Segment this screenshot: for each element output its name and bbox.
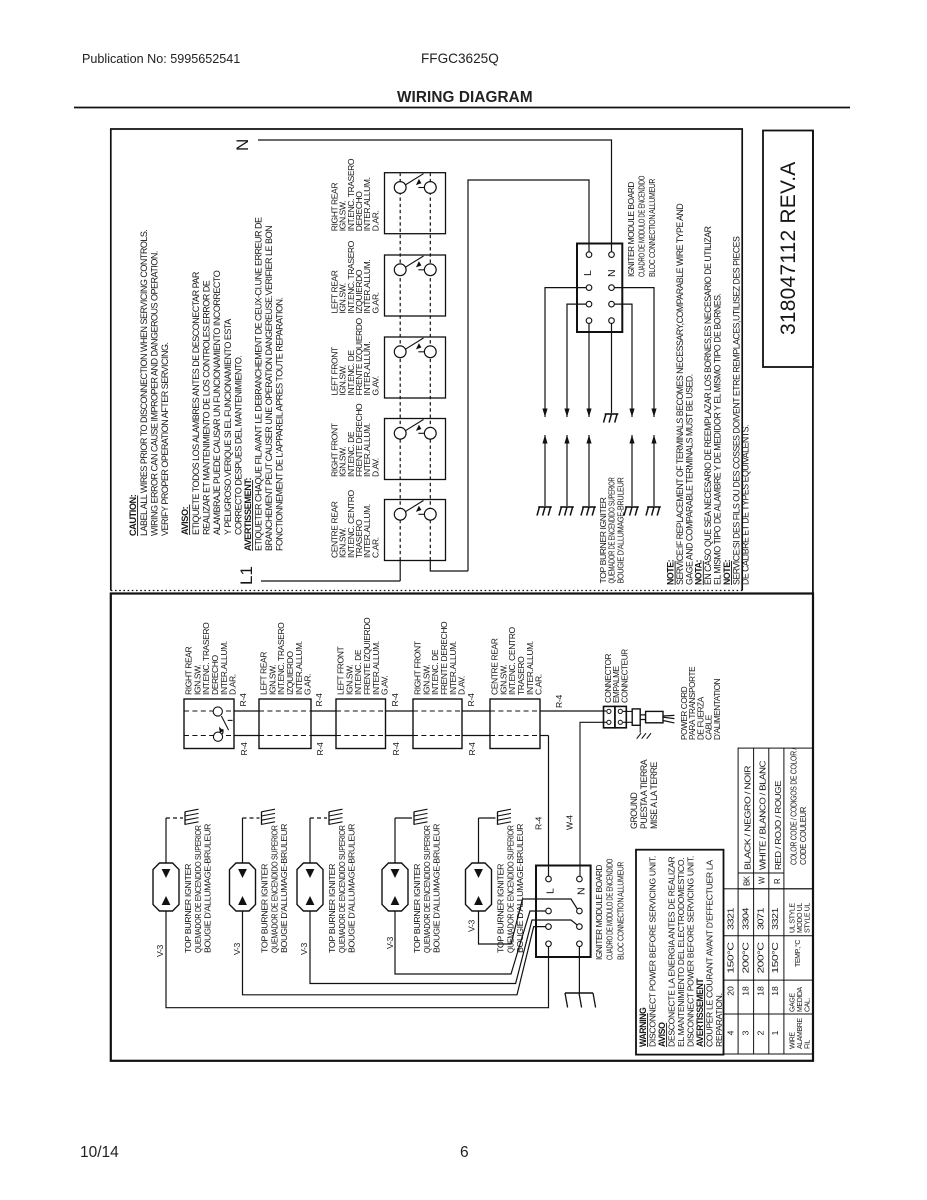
svg-text:WARNING: WARNING — [638, 1007, 648, 1047]
wire: board output 6 (direct to igniter) — [611, 323, 613, 413]
avertissement note (FR) — [243, 217, 285, 551]
ignition switch box (top chain): LEFT REAR — [385, 255, 446, 316]
wire: board output 2 — [567, 304, 586, 417]
svg-text:L: L — [582, 270, 594, 276]
top burner igniter electrode — [560, 506, 574, 508]
svg-text:GAGE AND COMPARABLE TERMINALS: GAGE AND COMPARABLE TERMINALS MUST BE US… — [684, 374, 694, 585]
label top burner igniter 4 — [413, 823, 441, 953]
label top burner igniter 1 — [184, 823, 212, 953]
caution note (EN) — [128, 230, 170, 536]
ignition switch box (bottom chain): RIGHT REAR — [184, 699, 234, 749]
svg-text:REPARATION.: REPARATION. — [714, 993, 724, 1047]
svg-text:318047112 REV.A: 318047112 REV.A — [777, 162, 800, 335]
warning box — [636, 850, 724, 1055]
svg-text:REALIZAR ET MANTENIMIENTO DE L: REALIZAR ET MANTENIMIENTO DE LOS CONTROL… — [202, 280, 212, 535]
top burner igniter 4 (spark module output) — [382, 863, 408, 911]
page footer date — [80, 1144, 119, 1162]
svg-text:G.AV.: G.AV. — [370, 376, 380, 395]
top burner igniter electrode — [582, 506, 596, 508]
label LEFT FRONT (top chain) — [330, 318, 381, 396]
svg-text:C.AR.: C.AR. — [370, 537, 380, 558]
wire: ignition switch bus B (bottom chain) — [184, 736, 549, 877]
wire continuation to igniter at v=479 — [588, 435, 590, 506]
svg-text:TOP BURNER IGNITER: TOP BURNER IGNITER — [497, 863, 506, 953]
svg-text:QUEMADOR DE ENCENDIDO SUPERIOR: QUEMADOR DE ENCENDIDO SUPERIOR — [423, 825, 432, 953]
svg-text:TOP BURNER IGNITER: TOP BURNER IGNITER — [261, 863, 270, 953]
top section frame (dotted left edge) — [111, 129, 742, 591]
svg-text:R-4: R-4 — [390, 693, 400, 706]
svg-text:18: 18 — [740, 986, 750, 996]
svg-text:QUEMADOR DE ENCENDIDO SUPERIOR: QUEMADOR DE ENCENDIDO SUPERIOR — [194, 825, 203, 953]
ignition switch box (top chain): LEFT FRONT — [385, 337, 446, 398]
svg-text:G.AR.: G.AR. — [303, 674, 313, 695]
wire: board output 1 — [545, 288, 586, 417]
wire igniter 2 return — [243, 911, 546, 995]
svg-text:D.AV.: D.AV. — [457, 676, 467, 695]
power cord plug body — [632, 709, 640, 725]
wire continuation to igniter at v=435 — [544, 435, 546, 506]
label RIGHT FRONT (top chain) — [330, 403, 381, 477]
svg-text:CUADRO DE MODULO DE ENCENDIDO: CUADRO DE MODULO DE ENCENDIDO — [636, 175, 646, 277]
switch contacts in first bottom box — [213, 707, 222, 716]
svg-text:R-4: R-4 — [239, 742, 249, 755]
wire continuation to igniter at v=457 — [566, 435, 568, 506]
svg-text:BOUGIE D'ALLUMAGE-BRULEUR: BOUGIE D'ALLUMAGE-BRULEUR — [516, 823, 525, 953]
page footer page number — [460, 1144, 469, 1162]
wire igniter 1 to electrode — [165, 818, 167, 863]
svg-text:2: 2 — [755, 1030, 765, 1035]
svg-text:G.AR.: G.AR. — [370, 292, 380, 313]
svg-text:DESCONECTE LA ENERGIA ANTES DE: DESCONECTE LA ENERGIA ANTES DE REALIZAR — [667, 857, 677, 1047]
label LEFT FRONT (bottom chain) — [336, 617, 390, 695]
svg-text:MEDIDA: MEDIDA — [797, 986, 804, 1012]
wire: bus to igniter board L input — [468, 180, 589, 571]
svg-text:R-4: R-4 — [238, 693, 248, 706]
ignition switch box (bottom chain): RIGHT FRONT — [413, 699, 462, 749]
svg-text:TOP BURNER IGNITER: TOP BURNER IGNITER — [599, 497, 608, 584]
ignition switch box (bottom chain): LEFT REAR — [259, 699, 311, 749]
svg-text:G.AV.: G.AV. — [380, 676, 390, 695]
svg-text:L: L — [545, 888, 557, 894]
svg-text:IGNITER MODULE BOARD: IGNITER MODULE BOARD — [626, 182, 636, 277]
electrode comb igniter 4 — [413, 812, 415, 825]
svg-text:FIL: FIL — [804, 1040, 811, 1049]
svg-text:ETIQUETER CHAQUE FIL AVANT LE: ETIQUETER CHAQUE FIL AVANT LE DEBRANCHEM… — [254, 217, 264, 551]
label RIGHT REAR (top chain) — [330, 158, 381, 231]
svg-text:L1: L1 — [237, 566, 256, 585]
igniter module board (top) — [577, 244, 622, 333]
svg-text:BOUGIE D'ALLUMAGE-BRULEUR: BOUGIE D'ALLUMAGE-BRULEUR — [617, 477, 626, 583]
connector pins — [607, 709, 623, 724]
top burner igniter electrode (direct) — [605, 413, 619, 415]
wire continuation to igniter at v=522 — [631, 435, 633, 506]
svg-text:N: N — [606, 269, 618, 277]
label ground — [629, 759, 659, 829]
svg-text:AVISO: AVISO — [657, 1022, 667, 1047]
svg-text:1: 1 — [770, 1030, 780, 1035]
svg-text:R-4: R-4 — [391, 742, 401, 755]
wire: L1 ignition-switch bus (top) — [399, 561, 401, 582]
wire: board output 4 — [614, 288, 654, 417]
top burner igniter 3 (spark module output) — [297, 863, 323, 911]
label connector — [604, 649, 629, 703]
igniter module board (bottom) — [536, 866, 591, 958]
svg-text:COLOR CODE / CODIGOS DE COLOR: COLOR CODE / CODIGOS DE COLOR / — [789, 747, 799, 865]
svg-text:20: 20 — [726, 986, 736, 996]
ignition switch box (top chain): CENTRE REAR — [385, 500, 446, 561]
svg-text:3304: 3304 — [740, 907, 750, 930]
svg-text:BRANCHEMENT PEUT CAUSER UNE OP: BRANCHEMENT PEUT CAUSER UNE OPERATION DA… — [264, 226, 274, 551]
label LEFT REAR (top chain) — [330, 240, 381, 313]
svg-text:18: 18 — [770, 986, 780, 996]
svg-text:200°C: 200°C — [740, 942, 750, 973]
label top burner igniter 3 — [328, 823, 356, 953]
svg-text:BLOC CONNECTION ALLUMEUR: BLOC CONNECTION ALLUMEUR — [615, 862, 625, 960]
wire W-4 connector to board N — [580, 722, 607, 876]
svg-text:W-4: W-4 — [565, 815, 575, 830]
board pins (bottom) — [546, 876, 583, 946]
svg-text:VERIFY PROPER OPERATION AFTER: VERIFY PROPER OPERATION AFTER SERVICING. — [160, 342, 170, 536]
svg-text:200°C: 200°C — [755, 942, 765, 973]
electrode comb igniter 3 — [328, 812, 330, 825]
wire igniter 4 to electrode — [394, 818, 396, 863]
svg-text:BOUGIE D'ALLUMAGE-BRULEUR: BOUGIE D'ALLUMAGE-BRULEUR — [348, 823, 357, 953]
electrode comb igniter 1 — [184, 812, 186, 825]
svg-text:EL MANTENIMIENTO DEL ELECTRODO: EL MANTENIMIENTO DEL ELECTRODOMESTICO. — [676, 858, 686, 1047]
label: top burner igniter (top section) — [599, 477, 626, 583]
svg-text:WIRE: WIRE — [790, 1032, 797, 1049]
top burner igniter 5 (spark module output) — [466, 863, 492, 911]
svg-text:LABEL ALL WIRES PRIOR TO DISCO: LABEL ALL WIRES PRIOR TO DISCONNECTION W… — [139, 230, 149, 536]
svg-text:R-4: R-4 — [314, 693, 324, 706]
sheet right border — [812, 131, 814, 594]
wire: ignition switch bus A (bottom chain) — [184, 710, 606, 712]
svg-text:R-4: R-4 — [534, 817, 544, 830]
svg-text:R: R — [773, 878, 782, 884]
wire igniter 1 return — [166, 911, 549, 1008]
svg-text:3321: 3321 — [726, 907, 736, 930]
svg-text:R-4: R-4 — [467, 742, 477, 755]
svg-text:3071: 3071 — [755, 907, 765, 930]
color code table — [738, 748, 813, 889]
svg-text:COUPER LE COURANT AVANT D'EFFE: COUPER LE COURANT AVANT D'EFFECTUER LA — [705, 860, 715, 1047]
svg-text:R-4: R-4 — [554, 695, 564, 708]
power cord wires — [663, 715, 674, 723]
electrode comb igniter 2 — [261, 812, 263, 825]
top burner igniter electrode — [538, 506, 552, 508]
wire igniter 3 return — [310, 911, 579, 984]
svg-text:QUEMADOR DE ENCENDIDO SUPERIOR: QUEMADOR DE ENCENDIDO SUPERIOR — [338, 825, 347, 953]
ignition switch box (top chain): RIGHT REAR — [385, 173, 446, 234]
wire igniter 5 to electrode — [478, 818, 480, 863]
svg-text:R-4: R-4 — [315, 742, 325, 755]
svg-text:BLOC CONNECTION ALLUMEUR: BLOC CONNECTION ALLUMEUR — [647, 179, 657, 277]
wire igniter 3 to electrode — [309, 818, 311, 863]
svg-text:EL MISMO TIPO DE ALAMBRE Y DE: EL MISMO TIPO DE ALAMBRE Y DE MEDIDOR Y … — [713, 293, 723, 585]
page header publication number — [82, 52, 240, 66]
bottom section frame — [111, 594, 813, 1061]
wire igniter 2 to electrode — [242, 818, 244, 863]
wire igniter 5 return — [479, 899, 579, 944]
page header model — [421, 51, 499, 66]
top burner igniter electrode — [625, 506, 639, 508]
svg-text:TEMP.,°C: TEMP.,°C — [794, 940, 802, 967]
electrode comb igniter 5 — [497, 812, 499, 825]
svg-text:CAL.: CAL. — [804, 998, 811, 1012]
svg-text:N: N — [576, 887, 588, 895]
svg-text:MISE A LA TERRE: MISE A LA TERRE — [649, 762, 659, 829]
label top burner igniter 5 — [497, 823, 525, 953]
wire igniter 4 return — [395, 911, 546, 974]
svg-text:DE CALIBRE ET DE TYPES EQUIVAL: DE CALIBRE ET DE TYPES EQUIVALENTS. — [741, 425, 751, 585]
svg-text:3321: 3321 — [770, 907, 780, 930]
wire gauge table — [724, 889, 813, 1054]
svg-text:BK: BK — [743, 875, 752, 886]
wire L1 — [261, 580, 400, 582]
svg-text:D.AR.: D.AR. — [228, 674, 238, 695]
label igniter module board (bottom) — [594, 858, 625, 960]
aviso note (ES) — [180, 270, 243, 535]
top burner igniter electrode — [647, 506, 661, 508]
svg-text:3: 3 — [740, 1030, 750, 1035]
label top burner igniter 2 — [261, 823, 289, 953]
svg-text:CORRECTO DESPUES DEL MANTENIMI: CORRECTO DESPUES DEL MANTENIMIENTO. — [233, 356, 243, 535]
svg-text:CUADRO DE MODULO DE ENCENDIDO: CUADRO DE MODULO DE ENCENDIDO — [605, 858, 615, 960]
svg-text:GROUND: GROUND — [629, 793, 639, 829]
svg-text:TOP BURNER IGNITER: TOP BURNER IGNITER — [184, 863, 193, 953]
note block (terminal replacement) — [666, 204, 751, 585]
svg-text:WHITE / BLANCO / BLANC: WHITE / BLANCO / BLANC — [758, 761, 768, 870]
svg-text:AVERTISSEMENT:: AVERTISSEMENT: — [243, 477, 253, 551]
svg-text:FONCTIONNEMENT DE L'APPAREIL A: FONCTIONNEMENT DE L'APPAREIL APRES TOUTE… — [275, 298, 285, 551]
svg-text:V-3: V-3 — [155, 944, 165, 957]
svg-text:N: N — [233, 139, 252, 151]
title block 318047112 REV.A — [763, 131, 813, 368]
ignition switch box (bottom chain): LEFT FRONT — [336, 699, 386, 749]
svg-text:CAUTION:: CAUTION: — [128, 494, 138, 536]
svg-text:18: 18 — [755, 986, 765, 996]
svg-text:V-3: V-3 — [232, 942, 242, 955]
wire: board output 5 — [614, 304, 632, 417]
svg-text:TOP BURNER IGNITER: TOP BURNER IGNITER — [328, 863, 337, 953]
top burner igniter 2 (spark module output) — [230, 863, 256, 911]
svg-text:V-3: V-3 — [385, 936, 395, 949]
connector housing — [604, 706, 615, 727]
svg-text:IGNITER MODULE BOARD: IGNITER MODULE BOARD — [594, 865, 604, 960]
label LEFT REAR (bottom chain) — [259, 622, 313, 695]
svg-text:TOP BURNER IGNITER: TOP BURNER IGNITER — [413, 863, 422, 953]
svg-text:MODO UL: MODO UL — [797, 903, 804, 933]
svg-text:CODE COULEUR: CODE COULEUR — [798, 807, 808, 865]
svg-text:150°C: 150°C — [770, 942, 780, 973]
wire N — [258, 140, 612, 252]
svg-text:UL STYLE: UL STYLE — [790, 903, 797, 933]
wire: board output 3 — [588, 323, 590, 417]
svg-text:AVERTISSEMENT: AVERTISSEMENT — [695, 978, 705, 1047]
svg-text:BLACK / NEGRO / NOIR: BLACK / NEGRO / NOIR — [743, 766, 753, 870]
label: igniter module board (top) — [626, 175, 657, 277]
svg-text:C.AR.: C.AR. — [534, 674, 544, 695]
svg-text:ALAMBRE: ALAMBRE — [797, 1018, 804, 1049]
svg-text:QUEMADOR DE ENCENDIDO SUPERIOR: QUEMADOR DE ENCENDIDO SUPERIOR — [270, 825, 279, 953]
svg-text:D.AV.: D.AV. — [370, 458, 380, 477]
svg-text:BOUGIE D'ALLUMAGE-BRULEUR: BOUGIE D'ALLUMAGE-BRULEUR — [433, 823, 442, 953]
wire: switched ignition bus (top) — [430, 561, 468, 572]
svg-text:BOUGIE D'ALLUMAGE-BRULEUR: BOUGIE D'ALLUMAGE-BRULEUR — [204, 823, 213, 953]
svg-text:D.AR.: D.AR. — [370, 210, 380, 231]
svg-text:RED / ROJO / ROUGE: RED / ROJO / ROUGE — [773, 780, 783, 870]
wire continuation to igniter at v=544 — [653, 435, 655, 506]
label RIGHT REAR (bottom chain) — [184, 622, 238, 695]
svg-text:WIRING ERROR CAN CAUSE IMPROPE: WIRING ERROR CAN CAUSE IMPROPER AND DANG… — [150, 251, 160, 536]
ignition switch box (top chain): RIGHT FRONT — [385, 419, 446, 480]
page title — [397, 89, 533, 107]
svg-text:D'ALIMENTATION: D'ALIMENTATION — [713, 678, 722, 740]
svg-text:AVISO:: AVISO: — [180, 506, 190, 535]
svg-text:4: 4 — [726, 1030, 736, 1035]
svg-text:DISCONNECT POWER BEFORE SERVIC: DISCONNECT POWER BEFORE SERVICING UNIT. — [648, 856, 658, 1047]
top burner igniter 1 (spark module output) — [153, 863, 179, 911]
title underline rule — [74, 107, 850, 109]
ignition switch box (bottom chain): CENTRE REAR — [490, 699, 540, 749]
svg-text:ETIQUETE TODOS LOS ALAMBRES AN: ETIQUETE TODOS LOS ALAMBRES ANTES DE DES… — [191, 271, 201, 535]
svg-text:CONNECTEUR: CONNECTEUR — [620, 649, 629, 703]
svg-text:STYLE UL: STYLE UL — [804, 903, 811, 933]
svg-text:V-3: V-3 — [299, 942, 309, 955]
svg-text:GAGE: GAGE — [790, 993, 797, 1012]
svg-text:V-3: V-3 — [467, 919, 477, 932]
board pins — [586, 252, 614, 324]
svg-text:BOUGIE D'ALLUMAGE-BRULEUR: BOUGIE D'ALLUMAGE-BRULEUR — [280, 823, 289, 953]
svg-text:R-4: R-4 — [466, 693, 476, 706]
svg-text:DISCONNECT POWER BEFORE SERVIC: DISCONNECT POWER BEFORE SERVICING UNIT. — [686, 856, 696, 1047]
label power cord — [680, 666, 722, 740]
label RIGHT FRONT (bottom chain) — [413, 621, 467, 695]
label CENTRE REAR (top chain) — [330, 490, 381, 558]
svg-text:Y PELIGROSO.VERIQUE SI EL FUNC: Y PELIGROSO.VERIQUE SI EL FUNCIONAMIENTO… — [223, 319, 233, 535]
chassis ground — [565, 992, 593, 994]
svg-text:QUEMADOR DE ENCENDIDO SUPERIOR: QUEMADOR DE ENCENDIDO SUPERIOR — [506, 825, 515, 953]
label CENTRE REAR (bottom chain) — [490, 627, 544, 695]
svg-text:ALAMBRAJE PUEDE CAUSAR UN FUNC: ALAMBRAJE PUEDE CAUSAR UN FUNCIONAMIENTO… — [212, 270, 222, 535]
svg-text:150°C: 150°C — [726, 942, 736, 973]
wire: board N to chassis ground — [578, 947, 580, 993]
wires connector to plug — [623, 710, 632, 712]
svg-text:PUESTA A TIERRA: PUESTA A TIERRA — [639, 759, 649, 829]
svg-text:W: W — [758, 876, 767, 884]
cord ground mark — [639, 725, 641, 732]
svg-text:QUEMADOR DE ENCENDIDO SUPERIOR: QUEMADOR DE ENCENDIDO SUPERIOR — [608, 477, 617, 583]
